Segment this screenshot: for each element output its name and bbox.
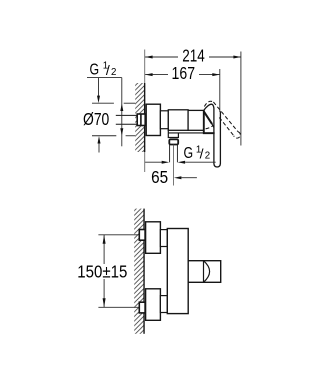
svg-text:167: 167 — [172, 63, 196, 83]
svg-text:G: G — [90, 62, 100, 79]
svg-text:Ø70: Ø70 — [83, 109, 109, 129]
svg-text:/: / — [200, 146, 204, 162]
svg-text:/: / — [106, 62, 110, 78]
svg-text:65: 65 — [151, 167, 168, 187]
svg-text:2: 2 — [111, 67, 116, 78]
svg-text:150±15: 150±15 — [77, 262, 127, 282]
svg-text:G: G — [184, 145, 194, 162]
svg-text:2: 2 — [205, 150, 210, 161]
